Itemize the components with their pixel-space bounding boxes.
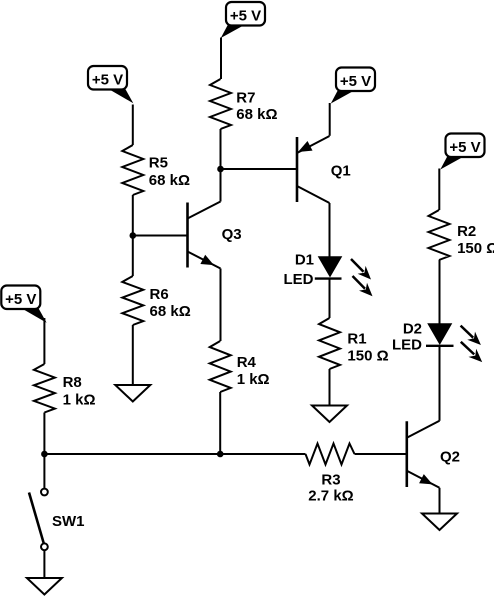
- svg-text:LED: LED: [284, 271, 314, 288]
- svg-text:68 kΩ: 68 kΩ: [236, 106, 277, 123]
- svg-text:+5 V: +5 V: [92, 71, 123, 88]
- svg-text:R3: R3: [321, 472, 340, 489]
- svg-text:68 kΩ: 68 kΩ: [150, 303, 191, 320]
- svg-text:1 kΩ: 1 kΩ: [63, 392, 96, 409]
- svg-text:R5: R5: [149, 155, 168, 172]
- svg-text:R4: R4: [237, 354, 257, 371]
- svg-text:150 Ω: 150 Ω: [457, 240, 494, 257]
- svg-text:Q1: Q1: [331, 163, 351, 180]
- svg-text:D1: D1: [295, 252, 314, 269]
- svg-text:R1: R1: [347, 331, 366, 348]
- svg-text:+5 V: +5 V: [230, 7, 261, 24]
- svg-text:R7: R7: [236, 90, 255, 107]
- svg-text:SW1: SW1: [52, 513, 85, 530]
- svg-text:2.7 kΩ: 2.7 kΩ: [308, 488, 353, 505]
- svg-text:+5 V: +5 V: [340, 73, 371, 90]
- svg-text:LED: LED: [392, 337, 422, 354]
- svg-text:+5 V: +5 V: [5, 291, 36, 308]
- svg-text:D2: D2: [403, 321, 422, 338]
- svg-text:R2: R2: [457, 223, 476, 240]
- svg-text:150 Ω: 150 Ω: [347, 348, 388, 365]
- svg-text:Q3: Q3: [222, 226, 242, 243]
- svg-text:R8: R8: [63, 374, 82, 391]
- svg-text:1 kΩ: 1 kΩ: [237, 371, 270, 388]
- svg-text:68 kΩ: 68 kΩ: [149, 172, 190, 189]
- svg-text:+5 V: +5 V: [449, 139, 480, 156]
- svg-text:Q2: Q2: [440, 449, 460, 466]
- svg-text:R6: R6: [150, 286, 169, 303]
